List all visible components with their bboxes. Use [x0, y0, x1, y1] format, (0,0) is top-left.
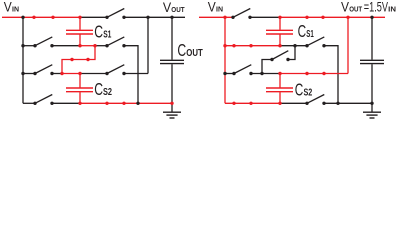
svg-text:C: C — [298, 21, 307, 41]
svg-text:=1.5V: =1.5V — [364, 0, 389, 15]
svg-text:V: V — [208, 0, 216, 15]
svg-text:C: C — [94, 79, 103, 99]
svg-text:S1: S1 — [103, 29, 112, 40]
svg-text:IN: IN — [12, 4, 19, 13]
svg-text:IN: IN — [216, 4, 223, 13]
svg-text:OUT: OUT — [349, 4, 362, 13]
svg-text:OUT: OUT — [186, 48, 203, 59]
svg-text:V: V — [341, 0, 349, 15]
svg-text:S2: S2 — [304, 87, 313, 98]
svg-text:OUT: OUT — [171, 5, 185, 14]
svg-text:C: C — [295, 79, 304, 99]
svg-text:C: C — [177, 40, 186, 60]
svg-text:IN: IN — [388, 4, 396, 13]
svg-text:S2: S2 — [103, 87, 112, 98]
svg-text:S1: S1 — [306, 29, 314, 40]
svg-text:C: C — [94, 21, 103, 41]
svg-text:V: V — [4, 0, 12, 15]
